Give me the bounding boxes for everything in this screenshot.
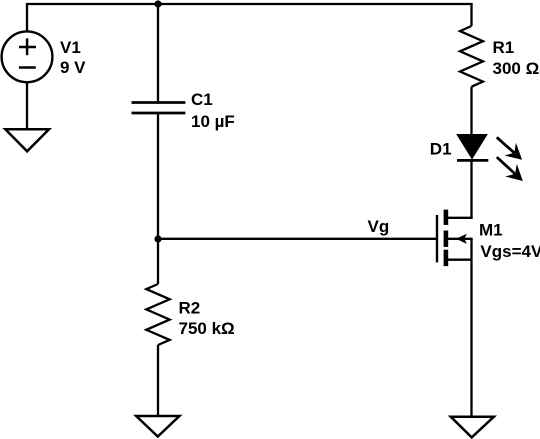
ground (below V1): [5, 129, 49, 151]
svg-text:R2: R2: [179, 298, 201, 317]
wire V1 bottom lead: [26, 83, 28, 130]
wire R2 bottom lead: [157, 345, 159, 416]
svg-text:V1: V1: [60, 38, 81, 57]
wire R1 bottom lead: [470, 87, 472, 135]
voltage source V1: [2, 31, 53, 82]
drain connection: [448, 217, 473, 219]
svg-text:R1: R1: [493, 38, 515, 57]
channel bar body: [444, 231, 449, 247]
channel bar drain: [444, 210, 449, 225]
body connection with arrow: [448, 238, 473, 240]
resistor R2: [146, 284, 169, 345]
wire C1 top lead: [157, 4, 159, 101]
svg-text:750 kΩ: 750 kΩ: [179, 319, 235, 338]
svg-text:10 µF: 10 µF: [191, 112, 235, 131]
wire V1 top lead: [26, 4, 28, 32]
svg-text:Vgs=4V: Vgs=4V: [480, 242, 540, 261]
ground (below R2): [136, 416, 179, 437]
svg-text:C1: C1: [191, 90, 213, 109]
body to source vertical: [470, 239, 472, 260]
wire R1 top lead: [470, 4, 472, 26]
LED D1: [457, 135, 488, 161]
wire R2 top lead: [157, 239, 159, 284]
LED emission arrow 2: [497, 157, 523, 181]
resistor R1: [460, 26, 483, 87]
source connection: [448, 259, 472, 261]
capacitor C1: [132, 103, 186, 114]
gate bar: [436, 215, 438, 262]
node top junction: [154, 0, 161, 7]
transistor M1: [437, 210, 473, 267]
svg-text:Vg: Vg: [368, 217, 390, 236]
wire source to ground: [470, 260, 472, 417]
wire LED cathode to drain: [470, 161, 472, 218]
LED emission arrow 1: [497, 137, 522, 160]
wire top rail: [26, 3, 473, 5]
channel bar source: [444, 250, 449, 266]
svg-text:300 Ω: 300 Ω: [493, 59, 540, 78]
svg-text:D1: D1: [430, 139, 452, 158]
svg-text:M1: M1: [479, 221, 503, 240]
wire Vg (gate wire): [158, 238, 437, 240]
ground (below M1): [451, 417, 494, 438]
wire C1 bottom lead: [157, 114, 159, 239]
svg-text:9 V: 9 V: [60, 58, 86, 77]
node Vg junction: [154, 235, 161, 242]
